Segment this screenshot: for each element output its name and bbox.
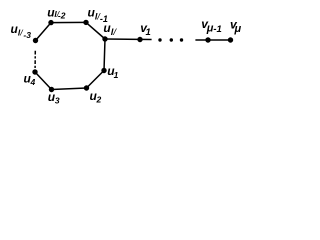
svg-text:u3: u3 <box>48 90 60 105</box>
svg-text:v1: v1 <box>140 21 150 38</box>
svg-text:ul/-3: ul/-3 <box>11 22 32 40</box>
svg-text:vμ-1: vμ-1 <box>201 17 222 35</box>
svg-text:u2: u2 <box>90 89 102 104</box>
svg-text:vμ: vμ <box>230 17 241 35</box>
svg-text:ul/-2: ul/-2 <box>47 6 65 21</box>
svg-text:ul/: ul/ <box>103 21 117 38</box>
svg-text:u1: u1 <box>107 64 118 80</box>
